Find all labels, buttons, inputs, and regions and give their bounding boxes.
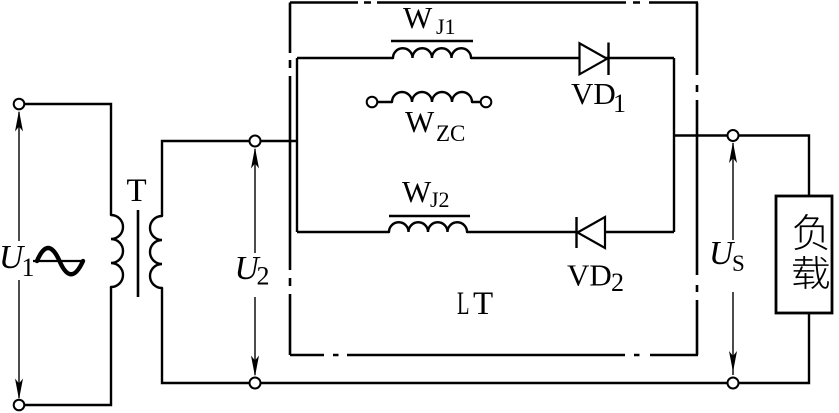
svg-text:W: W [405, 104, 435, 139]
svg-text:J2: J2 [430, 187, 450, 212]
svg-text:2: 2 [257, 262, 270, 291]
svg-text:S: S [732, 251, 745, 276]
svg-text:2: 2 [611, 268, 624, 297]
svg-text:W: W [403, 0, 433, 35]
svg-text:VD: VD [571, 76, 616, 111]
svg-text:T: T [473, 286, 493, 322]
svg-text:T: T [127, 173, 147, 209]
svg-text:1: 1 [22, 253, 35, 282]
svg-text:L: L [457, 285, 469, 321]
svg-text:VD: VD [567, 258, 612, 293]
svg-text:1: 1 [613, 89, 626, 118]
svg-text:J1: J1 [436, 14, 456, 39]
svg-text:W: W [402, 174, 432, 209]
svg-text:ZC: ZC [436, 121, 465, 146]
